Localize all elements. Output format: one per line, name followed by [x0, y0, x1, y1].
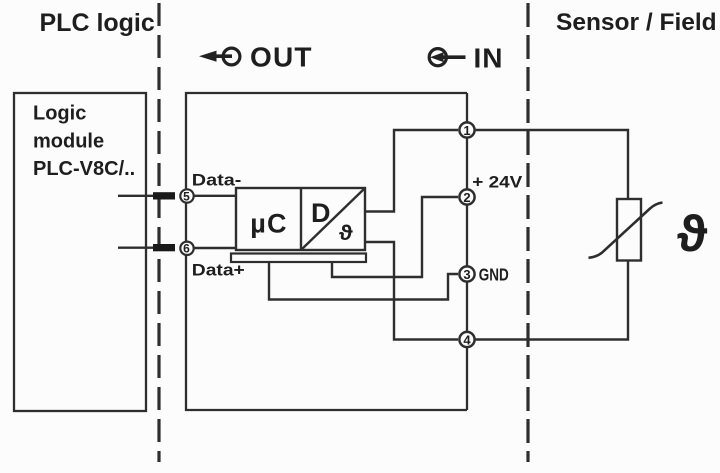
wire thermistor bottom to terminal 4: [476, 261, 628, 340]
wire C: terminal 2 (+24V) to block bottom bar: [332, 197, 458, 277]
svg-text:µC: µC: [250, 209, 287, 239]
connector mark (black plug) at terminal 5: [153, 192, 175, 199]
isolator module box (top, left, bottom edges): [186, 93, 467, 410]
OUT port symbol (arrow with circle): [199, 48, 240, 65]
label big theta (temperature): [677, 204, 707, 261]
label small theta: [339, 221, 354, 245]
isolator module right edge: [466, 93, 468, 410]
boundary dashed line left (PLC logic / module): [157, 3, 160, 462]
wire D: terminal 3 (GND) to block bottom bar: [269, 262, 458, 300]
svg-text:4: 4: [463, 332, 471, 347]
terminal 1 circle: [459, 122, 474, 137]
terminal 2 circle: [459, 189, 474, 204]
svg-text:Sensor / Field: Sensor / Field: [556, 9, 717, 36]
wire A: DAC to terminal 1: [365, 130, 458, 212]
wire PLC output to terminal 5: [118, 195, 154, 197]
svg-text:2: 2: [463, 190, 470, 205]
svg-text:Data+: Data+: [192, 261, 245, 280]
svg-text:+ 24V: + 24V: [472, 172, 523, 191]
thermistor body: [617, 199, 641, 261]
divider between uC and D cells: [300, 188, 302, 250]
svg-text:D: D: [311, 198, 331, 228]
terminal 3 circle: [459, 266, 474, 281]
svg-text:IN: IN: [474, 42, 504, 73]
logic module box: [14, 93, 146, 411]
terminal 5 circle: [180, 189, 193, 202]
block bottom bar: [231, 254, 366, 263]
svg-text:3: 3: [463, 267, 470, 282]
IN port symbol (arrow into circle): [429, 49, 465, 66]
wire B: DAC to terminal 4: [365, 242, 458, 340]
diagonal of D/theta cell: [302, 189, 364, 249]
connector mark (black plug) at terminal 6: [153, 244, 175, 251]
terminal 4 circle: [459, 332, 474, 347]
svg-text:1: 1: [463, 123, 470, 138]
svg-text:OUT: OUT: [250, 42, 313, 73]
svg-text:PLC-V8C/..: PLC-V8C/..: [33, 158, 135, 180]
boundary dashed line right (module / sensor field): [526, 3, 529, 462]
svg-text:PLC logic: PLC logic: [40, 9, 155, 37]
wire terminal 1 to thermistor top: [476, 130, 628, 199]
terminal 6 circle: [180, 242, 193, 255]
svg-text:ϑ: ϑ: [339, 221, 354, 245]
svg-text:Data-: Data-: [192, 171, 242, 190]
svg-text:module: module: [33, 131, 104, 153]
svg-text:GND: GND: [479, 265, 509, 285]
wire terminal 6 to microcontroller: [194, 247, 237, 249]
microcontroller / DAC block: [236, 188, 365, 250]
wire terminal 5 to microcontroller: [194, 195, 237, 197]
wire PLC output to terminal 6: [118, 246, 154, 248]
svg-text:5: 5: [183, 189, 190, 203]
svg-text:6: 6: [183, 242, 190, 256]
svg-text:Logic: Logic: [33, 103, 86, 125]
svg-text:ϑ: ϑ: [677, 204, 707, 261]
thermistor diagonal stroke: [589, 203, 663, 258]
